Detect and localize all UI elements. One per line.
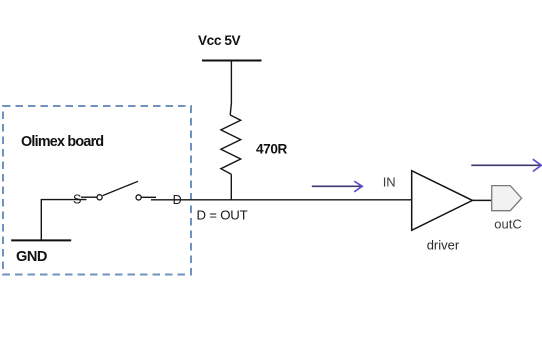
switch contact circle right <box>136 195 141 200</box>
signal arrow from driver output <box>471 159 541 171</box>
svg-text:D = OUT: D = OUT <box>197 208 248 223</box>
buffer driver U1 (triangle) <box>412 171 473 231</box>
wire resistor to node D=OUT <box>230 174 232 200</box>
wire Vcc to resistor <box>230 61 231 115</box>
power rail Vcc <box>202 60 262 62</box>
enclosure Olimex board (dashed) <box>3 106 191 275</box>
signal arrow into driver <box>312 181 362 192</box>
svg-text:Vcc 5V: Vcc 5V <box>198 33 241 48</box>
svg-text:S: S <box>73 193 81 207</box>
ground bar GND <box>11 239 71 241</box>
svg-text:outC: outC <box>494 216 521 231</box>
switch arm <box>103 181 138 195</box>
wire GND corner to switch <box>41 200 86 241</box>
wire driver output to outC <box>472 199 491 201</box>
wire node D=OUT to driver input <box>151 199 412 201</box>
wire switch circle to D <box>141 196 156 198</box>
svg-text:GND: GND <box>16 249 47 265</box>
svg-text:Olimex board: Olimex board <box>21 134 103 150</box>
port outC (pentagon) <box>492 186 522 211</box>
svg-text:470R: 470R <box>256 142 287 157</box>
svg-text:IN: IN <box>383 174 396 189</box>
wire S to switch circle <box>81 196 97 198</box>
switch contact circle left <box>97 195 102 200</box>
resistor R 470R <box>221 115 241 174</box>
svg-text:driver: driver <box>427 238 460 253</box>
